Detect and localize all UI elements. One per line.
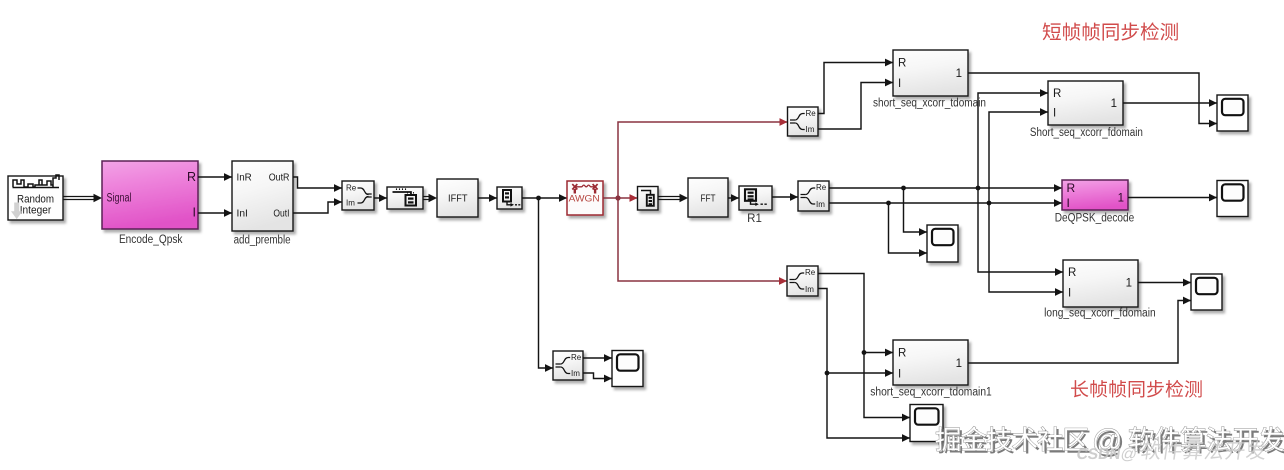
wire top Re to short_seq_xcorr_tdomain R <box>818 59 893 114</box>
wire Encode_Qpsk R to add_premble InR <box>198 173 232 181</box>
svg-text:DeQPSK_decode: DeQPSK_decode <box>1055 213 1135 225</box>
svg-text:R: R <box>1067 181 1076 195</box>
svg-text:InI: InI <box>237 208 248 220</box>
gray watermark arrow <box>11 203 22 220</box>
svg-text:R: R <box>1053 88 1061 100</box>
wire Im tap down to long_seq_xcorr_fdomain I <box>989 203 1063 296</box>
svg-text:Short_seq_xcorr_fdomain: Short_seq_xcorr_fdomain <box>1030 127 1143 139</box>
svg-text:I: I <box>898 369 901 381</box>
svg-text:Im: Im <box>571 369 580 378</box>
svg-text:1: 1 <box>1126 278 1132 290</box>
svg-text:long_seq_xcorr_fdomain: long_seq_xcorr_fdomain <box>1044 308 1156 320</box>
subsystem DeQPSK_decode (magenta) <box>1062 180 1128 210</box>
block Complex to Real-Imag (tap) <box>553 351 583 380</box>
svg-text:1: 1 <box>956 68 962 80</box>
wire tap Re to scope <box>583 354 612 362</box>
wire bottom Im down <box>818 289 829 376</box>
label Short_seq_xcorr_fdomain <box>1030 127 1143 139</box>
wire junction down to Complex to Re-Im tap <box>539 198 554 372</box>
label DeQPSK_decode <box>1055 213 1135 225</box>
watermark juejin <box>936 424 1284 459</box>
block Buffer <box>387 187 423 209</box>
wire Re branch to tdomain1 R <box>864 349 893 357</box>
svg-text:R: R <box>187 170 196 184</box>
block Unbuffer <box>497 187 522 209</box>
svg-text:Re: Re <box>816 183 827 192</box>
label long_seq_xcorr_fdomain <box>1044 308 1156 320</box>
svg-text:Encode_Qpsk: Encode_Qpsk <box>119 234 183 246</box>
wire DeQPSK_decode to scope <box>1128 194 1217 202</box>
wire FFT to R1 <box>728 194 739 202</box>
wire Buffer to IFFT (frame signal) <box>423 194 437 202</box>
svg-text:R1: R1 <box>747 213 762 225</box>
red wire up to short-frame branch <box>618 118 788 198</box>
wire Im to DeQPSK_decode I <box>829 199 1062 207</box>
block FFT <box>688 178 728 217</box>
scope (long frame) <box>1191 274 1222 310</box>
wire R1 to Complex to Re-Im <box>772 193 798 201</box>
svg-text:Re: Re <box>571 353 582 362</box>
block Buffer2 <box>638 187 659 211</box>
svg-text:Im: Im <box>805 285 814 294</box>
svg-text:R: R <box>898 58 906 70</box>
svg-text:Im: Im <box>346 199 355 208</box>
wire Re to DeQPSK_decode R <box>829 184 1062 192</box>
wire short_seq_xcorr_tdomain out to scope <box>968 73 1217 127</box>
scope (channel tap) <box>612 351 643 387</box>
wire Buffer2 to FFT (frame signal) <box>658 194 688 202</box>
block Complex to Real-Imag (top) <box>788 107 819 136</box>
wire AWGN output (red) <box>603 194 638 202</box>
wire Im branch to scope <box>889 203 928 257</box>
label Encode_Qpsk <box>119 234 183 246</box>
red heading long frame sync <box>1071 380 1202 398</box>
block Real-Imag to Complex <box>342 181 374 210</box>
svg-text:I: I <box>898 78 901 90</box>
label short_seq_xcorr_tdomain1 <box>870 387 992 399</box>
svg-text:R: R <box>1068 267 1076 279</box>
svg-text:Integer: Integer <box>20 205 52 217</box>
block Complex to Real-Imag (bottom) <box>787 266 818 296</box>
subsystem short_seq_xcorr_tdomain1 <box>893 340 968 385</box>
subsystem add_premble <box>232 161 293 231</box>
svg-text:@: @ <box>1119 445 1138 463</box>
block Complex to Real-Imag (mid) <box>798 181 829 211</box>
subsystem long_seq_xcorr_fdomain <box>1063 260 1138 307</box>
wire top Im to short_seq_xcorr_tdomain I <box>818 79 893 129</box>
svg-text:OutI: OutI <box>273 208 289 220</box>
red wire down to long-frame branch <box>618 198 787 285</box>
svg-text:Re: Re <box>806 109 817 118</box>
svg-text:1: 1 <box>956 358 962 370</box>
wire Im branch down to scope <box>827 373 910 442</box>
source block Random Integer <box>8 175 63 220</box>
svg-text:InR: InR <box>237 172 253 184</box>
svg-text:add_premble: add_premble <box>234 235 291 247</box>
svg-text:OutR: OutR <box>269 172 290 184</box>
block AWGN channel (red) <box>567 181 603 215</box>
scope (constellation mid) <box>927 225 958 262</box>
wire Im branch to tdomain1 I <box>827 369 893 377</box>
wire Unbuffer to AWGN <box>522 194 567 202</box>
svg-text:1: 1 <box>1118 193 1124 205</box>
subsystem Encode_Qpsk (magenta) <box>102 161 198 229</box>
svg-text:I: I <box>1053 108 1056 120</box>
svg-text:short_seq_xcorr_tdomain: short_seq_xcorr_tdomain <box>873 98 986 110</box>
svg-text:Signal: Signal <box>107 193 132 205</box>
scope (short frame) <box>1217 95 1248 131</box>
watermark csdn <box>1075 441 1267 463</box>
label R1 <box>747 213 762 225</box>
block R1 (Unbuffer) <box>739 186 772 210</box>
wire short_seq_xcorr_tdomain1 out to scope <box>968 297 1191 363</box>
wire Re branch to scope <box>904 188 928 236</box>
svg-text:Im: Im <box>816 200 825 209</box>
svg-text:1: 1 <box>1111 98 1117 110</box>
wire Re branch down to scope <box>864 353 910 422</box>
red heading short frame sync <box>1043 22 1178 40</box>
wire Re tap down to long_seq_xcorr_fdomain R <box>978 188 1063 276</box>
scope (decoded) <box>1217 181 1248 217</box>
wire Im tap up to Short_seq_xcorr_fdomain I <box>989 108 1048 203</box>
label short_seq_xcorr_tdomain <box>873 98 986 110</box>
wire Short_seq_xcorr_fdomain out to scope <box>1123 99 1217 107</box>
label add_premble <box>234 235 291 247</box>
wire tap Im to scope <box>583 373 612 382</box>
wire add_premble OutR to Re <box>293 177 342 192</box>
wire IFFT to Unbuffer <box>478 194 497 202</box>
svg-text:Re: Re <box>805 268 816 277</box>
svg-text:short_seq_xcorr_tdomain1: short_seq_xcorr_tdomain1 <box>870 387 992 399</box>
svg-text:I: I <box>193 206 196 220</box>
wire add_premble OutI to Im <box>293 198 342 213</box>
svg-text:CSDN: CSDN <box>1075 446 1121 463</box>
wire to Buffer <box>374 194 387 202</box>
svg-text:Im: Im <box>806 125 815 134</box>
wire Encode_Qpsk I to add_premble InI <box>198 209 232 217</box>
scope (tdomain1) <box>910 405 943 442</box>
wire long_seq_xcorr_fdomain out to scope <box>1138 279 1191 287</box>
subsystem short_seq_xcorr_tdomain <box>893 50 968 96</box>
wire bottom Re to short_seq_xcorr_tdomain1 R <box>818 274 866 355</box>
subsystem Short_seq_xcorr_fdomain <box>1048 81 1123 125</box>
wire Random Integer to Encode_Qpsk (frame signal) <box>63 194 102 202</box>
svg-text:R: R <box>898 348 906 360</box>
wire Re tap up to Short_seq_xcorr_fdomain R <box>978 89 1048 188</box>
svg-text:I: I <box>1067 196 1070 210</box>
svg-text:IFFT: IFFT <box>448 193 468 204</box>
block IFFT <box>437 179 478 217</box>
svg-text:FFT: FFT <box>701 193 716 204</box>
svg-text:Re: Re <box>346 184 357 193</box>
svg-text:AWGN: AWGN <box>569 193 600 204</box>
svg-text:I: I <box>1068 288 1071 300</box>
